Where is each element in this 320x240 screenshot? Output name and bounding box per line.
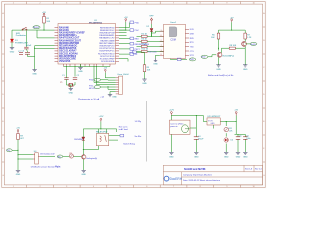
crystal circuit wires — [67, 66, 76, 89]
ground below caps — [32, 70, 36, 72]
sheet background — [0, 0, 267, 189]
hierarchical label box row6 — [130, 53, 138, 56]
svg-text:R8 10K: R8 10K — [230, 45, 237, 47]
ground psu C5 — [236, 152, 241, 158]
capacitor C1 22pF — [62, 75, 69, 82]
global label MCLR — [33, 26, 40, 29]
svg-text:GND: GND — [243, 157, 248, 159]
svg-text:Date: 2019-05-11 Sheet: de-a: Date: 2019-05-11 Sheet: de-architecture — [183, 179, 221, 182]
ground under U1 VSS — [78, 64, 83, 73]
capacitor C2 22pF — [73, 75, 80, 80]
svg-text:Buffer and Gnd(Drv) of Rx: Buffer and Gnd(Drv) of Rx — [208, 74, 234, 77]
svg-text:RA5/AN4/SS/C2OUT: RA5/AN4/SS/C2OUT — [59, 39, 82, 42]
svg-text:RA2/AN2/VREF-/CVREF: RA2/AN2/VREF-/CVREF — [59, 32, 85, 35]
svg-text:GND: GND — [142, 83, 147, 85]
hierarchical label box TxD right — [177, 58, 181, 61]
ground under J2 — [108, 95, 118, 99]
wire bottom rail under U1 — [64, 66, 111, 68]
svg-text:R2 1K: R2 1K — [141, 33, 147, 35]
svg-text:MCLR: MCLR — [89, 88, 95, 90]
power +5V above J2 — [103, 68, 107, 73]
junction dot — [125, 30, 126, 31]
svg-text:Photomaster in 10 uA: Photomaster in 10 uA — [78, 98, 100, 101]
svg-text:R12 1K: R12 1K — [141, 49, 148, 51]
transistor Q2 — [217, 52, 222, 57]
svg-text:RB1/INT1/AN10: RB1/INT1/AN10 — [99, 42, 115, 45]
ground right branch — [243, 48, 248, 71]
power +5V right of U1 — [124, 17, 128, 22]
svg-text:RxD: RxD — [202, 57, 206, 59]
svg-text:Pushbutton: Pushbutton — [16, 34, 26, 37]
wires to J2 — [94, 66, 116, 95]
svg-text:D4: D4 — [231, 139, 233, 141]
svg-text:VPP: VPP — [149, 16, 154, 18]
svg-text:Conn1: Conn1 — [170, 22, 177, 24]
svg-text:RA3/AN3/VREF+: RA3/AN3/VREF+ — [59, 34, 78, 37]
svg-text:DTR: DTR — [190, 55, 195, 57]
svg-text:GND: GND — [224, 157, 229, 159]
DC jack J4 — [170, 120, 191, 134]
wire DTR row down — [137, 52, 160, 65]
ground psu jack — [169, 152, 174, 158]
svg-text:GND: GND — [78, 71, 83, 73]
svg-text:RB3/AN9/CCP2: RB3/AN9/CCP2 — [99, 37, 115, 40]
resistor R6 — [211, 33, 220, 39]
svg-text:DocERH: DocERH — [170, 177, 183, 181]
svg-text:7: 7 — [161, 45, 162, 47]
ground under Q2 — [216, 57, 221, 71]
title block — [163, 165, 262, 185]
svg-text:Sw Rlw: Sw Rlw — [135, 136, 142, 138]
svg-text:GND: GND — [211, 123, 216, 125]
hierarchical label box row4 — [130, 42, 150, 45]
resistor R5 pulldown — [143, 65, 151, 79]
svg-text:TxD: TxD — [190, 59, 194, 61]
LED D4 — [224, 138, 233, 142]
svg-text:3: 3 — [161, 50, 162, 52]
ground under LED — [10, 48, 14, 50]
svg-text:RB4/KBI0/AN11: RB4/KBI0/AN11 — [99, 34, 115, 37]
sensor U4 DS1820 — [33, 151, 55, 164]
microcontroller U1 PIC16F877A — [58, 20, 116, 64]
svg-text:RE0/RD/AN5/PWM: RE0/RD/AN5/PWM — [59, 42, 79, 45]
svg-text:U2 LM7805CT: U2 LM7805CT — [208, 116, 222, 118]
buffer +5V power — [230, 18, 234, 23]
svg-text:GND: GND — [169, 157, 174, 159]
svg-text:10K: 10K — [46, 21, 50, 23]
wire TxD row — [170, 58, 187, 61]
junction dot D2 row — [151, 36, 152, 37]
svg-text:R4 1K: R4 1K — [141, 44, 147, 46]
ground psu LED — [224, 152, 229, 158]
svg-text:RE1/WR/AN6/OC: RE1/WR/AN6/OC — [59, 45, 78, 48]
power +5V symbol top-left — [43, 13, 45, 16]
svg-text:R3 1K: R3 1K — [141, 39, 147, 41]
hierarchical label box row1 — [130, 21, 139, 24]
svg-text:RA0/AN0: RA0/AN0 — [59, 26, 70, 29]
svg-text:Rly In: Rly In — [55, 166, 60, 168]
svg-text:6: 6 — [161, 35, 162, 37]
svg-text:GND: GND — [112, 96, 117, 98]
ground under crystal — [69, 89, 74, 95]
capacitor C3 100uF — [22, 43, 32, 57]
U1 left pin stubs — [55, 28, 59, 62]
svg-text:Switch Relay: Switch Relay — [123, 142, 135, 145]
buffer top rail wire — [219, 22, 246, 33]
series resistor R2 — [141, 33, 147, 37]
kicad logo — [164, 176, 183, 181]
resistor R11 — [224, 127, 233, 132]
title block text — [183, 167, 262, 182]
svg-text:RE2/CS/AN7/SS: RE2/CS/AN7/SS — [59, 47, 77, 50]
svg-text:GND: GND — [236, 157, 241, 159]
ground psu C4 — [194, 152, 199, 158]
junction dot — [43, 30, 44, 31]
svg-text:1-8 Rly: 1-8 Rly — [135, 121, 141, 123]
svg-text:PGD: PGD — [135, 22, 140, 24]
sheet border outer frame — [2, 2, 265, 188]
global label DQ oval — [6, 149, 12, 152]
svg-text:DS 18-20(s) 1-W: DS 18-20(s) 1-W — [40, 153, 54, 155]
sensor +5V power — [16, 127, 20, 133]
svg-text:+5V: +5V — [42, 12, 46, 14]
svg-text:100n: 100n — [246, 138, 250, 140]
ground under R5 — [142, 79, 147, 85]
svg-text:470uF: 470uF — [198, 139, 204, 141]
svg-text:GND: GND — [243, 69, 248, 71]
global label RC7/RX oval — [89, 85, 101, 90]
junction dots sensor — [18, 150, 19, 151]
svg-text:1N4148W: 1N4148W — [74, 139, 83, 141]
svg-text:GND: GND — [153, 63, 158, 65]
capacitor C4 470uF — [194, 136, 204, 140]
wire VDD rows to MCU — [28, 46, 55, 70]
svg-text:GND: GND — [10, 51, 15, 53]
wires resistors to COM — [137, 31, 164, 51]
COM pin numbers — [161, 30, 162, 56]
svg-text:VSS/AVSS: VSS/AVSS — [59, 60, 71, 63]
svg-text:+12V: +12V — [98, 116, 104, 118]
svg-text:GND: GND — [216, 69, 221, 71]
svg-text:power in: power in — [170, 125, 177, 128]
ground relay — [81, 170, 86, 176]
svg-text:TXD: TXD — [190, 47, 194, 49]
diode D2 — [147, 24, 154, 37]
hierarchical label box row5 — [130, 48, 141, 51]
U1 right pin names — [98, 27, 115, 63]
svg-text:Company: http://share.Machine: Company: http://share.Machine — [183, 174, 213, 177]
COM connector J3 — [160, 22, 195, 58]
svg-text:100nF: 100nF — [26, 45, 32, 47]
svg-text:MCLR: MCLR — [33, 27, 39, 29]
wires buffer mid — [208, 39, 251, 57]
svg-text:RELAY-SPDT: RELAY-SPDT — [96, 131, 108, 134]
power flag above D2 — [149, 16, 154, 24]
psu +5V power — [234, 110, 238, 116]
svg-text:8: 8 — [161, 54, 162, 56]
svg-text:OSC1/CLKI/RA7: OSC1/CLKI/RA7 — [59, 50, 77, 53]
svg-text:PGC: PGC — [135, 30, 140, 32]
svg-text:RXD: RXD — [190, 38, 195, 40]
wire sensor column — [12, 140, 33, 171]
svg-text:RC4/SDI/SDA: RC4/SDI/SDA — [101, 60, 115, 63]
svg-text:RB2/INT2/AN8: RB2/INT2/AN8 — [100, 39, 115, 42]
svg-text:GND: GND — [16, 174, 21, 176]
transistor Q1 — [242, 42, 247, 47]
U1 right pin stubs — [116, 28, 120, 62]
series resistor R12 — [141, 49, 148, 53]
svg-text:DSR: DSR — [190, 34, 195, 36]
junction dots psu — [196, 115, 197, 116]
svg-text:2: 2 — [161, 40, 162, 42]
svg-text:RA4/T0CKI/C1OUT: RA4/T0CKI/C1OUT — [59, 37, 80, 40]
svg-text:1: 1 — [161, 30, 162, 32]
hierarchical label box row2 — [130, 29, 139, 32]
svg-text:DCD: DCD — [190, 29, 195, 31]
hierarchical label box AC — [120, 134, 124, 137]
svg-text:OSC2/CLKO/RA6: OSC2/CLKO/RA6 — [59, 52, 78, 55]
svg-text:+5V: +5V — [234, 110, 238, 112]
svg-text:GND: GND — [32, 73, 37, 75]
wire +5V to RB7 row — [119, 22, 126, 30]
svg-text:Rev 2.4: Rev 2.4 — [255, 168, 262, 170]
global label RxD oval — [201, 55, 208, 59]
resistor R8 horizontal — [229, 45, 237, 49]
svg-text:to AC load: to AC load — [119, 128, 128, 131]
svg-text:R?: R? — [70, 153, 72, 155]
capacitor C6 — [243, 135, 250, 139]
section divider line — [146, 101, 148, 162]
wires relay base row — [63, 157, 84, 171]
svg-text:+5V: +5V — [230, 18, 234, 20]
junction dot — [34, 48, 35, 49]
svg-text:GND: GND — [81, 174, 86, 176]
resistor R1 — [43, 17, 51, 24]
wire MCLR rail — [22, 29, 55, 31]
global label sensor/relay oval — [57, 155, 63, 158]
relay K1 — [96, 131, 109, 146]
global label RC6/TX oval — [89, 78, 101, 81]
wires U1 right rows — [119, 23, 130, 62]
svg-text:Stze 1-8: Stze 1-8 — [245, 167, 252, 170]
psu +12V power — [169, 110, 175, 116]
switch SW1 — [22, 27, 27, 30]
wire sensor out row — [40, 156, 55, 158]
relay +12V power — [98, 116, 104, 122]
junction dots relay — [100, 128, 101, 129]
transistor Q3 — [82, 155, 86, 159]
svg-text:+5V: +5V — [124, 17, 128, 19]
svg-text:GND: GND — [69, 92, 74, 94]
regulator U2 LM7805 — [207, 116, 221, 125]
svg-text:Rly: Rly — [58, 156, 61, 158]
svg-text:RA1/AN1: RA1/AN1 — [59, 29, 70, 32]
capacitor C7 — [18, 51, 23, 54]
resistor R9 pull-up 4K7 — [17, 134, 25, 141]
svg-text:PGD: PGD — [89, 80, 94, 82]
svg-text:+12V: +12V — [169, 110, 175, 112]
svg-text:BC547A(Pw): BC547A(Pw) — [222, 55, 234, 58]
wire R1 to MCLR rail — [43, 23, 45, 30]
ground sensor column — [16, 170, 21, 176]
svg-text:Conn_02x04: Conn_02x04 — [117, 74, 129, 76]
hierarchical label box row3 — [130, 37, 139, 40]
series resistor R3 — [141, 39, 147, 43]
hierarchical label box DTR — [129, 51, 157, 54]
svg-text:Darlington(b): Darlington(b) — [86, 157, 97, 160]
U1 left pin names — [59, 26, 85, 63]
ground flag right — [153, 59, 158, 66]
svg-text:Sim620 and SHT88: Sim620 and SHT88 — [184, 168, 206, 171]
svg-text:1.2K: 1.2K — [247, 37, 252, 39]
relay contact wires — [109, 136, 120, 141]
resistor R7 — [244, 33, 252, 39]
LED D1 — [10, 39, 27, 48]
psu rail wires — [171, 116, 245, 153]
svg-text:RxD5: RxD5 — [251, 44, 257, 46]
svg-text:TxD conn: TxD conn — [148, 51, 157, 53]
U1 bottom pin stubs — [64, 64, 111, 67]
flyback diode D3 1N4148 — [74, 137, 85, 141]
ICSP connector J2 — [116, 74, 130, 94]
wire switch to cap C7 — [25, 31, 27, 48]
junction dot — [218, 48, 219, 49]
global label TxD oval — [189, 58, 195, 61]
svg-text:PIC16F877A: PIC16F877A — [89, 21, 102, 24]
resistor R10 circle style — [69, 153, 73, 158]
ground psu C6 — [243, 152, 248, 158]
svg-text:COM: COM — [170, 40, 175, 42]
wire MCLR oval branch — [37, 30, 55, 38]
relay rail wires — [83, 122, 116, 155]
border grid reference letters — [2, 3, 265, 189]
capacitor C5 — [236, 135, 242, 139]
svg-text:C5: C5 — [239, 135, 241, 137]
global label out oval — [250, 42, 257, 45]
svg-text:GND: GND — [194, 157, 199, 159]
wire LED branch — [11, 30, 13, 38]
series resistor R4 — [141, 44, 147, 48]
crystal Y1 — [60, 82, 73, 87]
svg-text:DQ: DQ — [7, 150, 10, 152]
junction dot buffer rail — [231, 30, 232, 31]
